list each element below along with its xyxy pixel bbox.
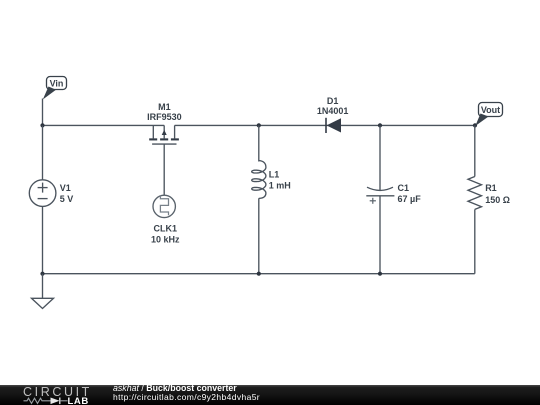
wire C1 top lead — [379, 125, 381, 190]
source stub — [152, 125, 154, 138]
svg-text:1 mH: 1 mH — [269, 180, 291, 190]
bulk arrow lead from rail — [163, 125, 165, 138]
channel bar left — [149, 138, 157, 140]
curved top plate — [367, 187, 393, 190]
ground — [32, 298, 54, 308]
svg-text:IRF9530: IRF9530 — [147, 112, 182, 122]
svg-text:D1: D1 — [327, 96, 339, 106]
svg-text:CLK1: CLK1 — [154, 223, 178, 233]
wire L1 top lead — [258, 125, 260, 161]
straight bottom plate — [366, 195, 394, 197]
capacitor C1 (polarized) — [366, 187, 394, 204]
svg-text:Vout: Vout — [481, 105, 500, 115]
gate plate — [152, 143, 176, 145]
svg-text:67 µF: 67 µF — [398, 194, 422, 204]
net flag Vout — [475, 103, 502, 127]
bulk arrowhead (points up) — [162, 130, 167, 135]
svg-text:C1: C1 — [398, 183, 410, 193]
wire bottom rail — [43, 273, 475, 275]
clock source CLK1 — [153, 195, 175, 217]
wire V1 top lead — [42, 125, 44, 179]
channel bar middle — [160, 138, 168, 140]
wire R1 bottom lead — [474, 209, 476, 273]
svg-text:150 Ω: 150 Ω — [485, 195, 510, 205]
drain stub — [174, 125, 176, 138]
node C1 top junction — [378, 123, 382, 127]
svg-text:Vin: Vin — [50, 79, 64, 89]
transistor M1 (P-MOSFET IRF9530) — [149, 125, 179, 144]
svg-text:V1: V1 — [60, 183, 71, 193]
wire M1 gate to CLK1 — [163, 144, 165, 195]
node L1 top junction — [257, 123, 261, 127]
svg-text:LAB: LAB — [68, 396, 89, 405]
svg-text:R1: R1 — [485, 183, 497, 193]
wire C1 bottom lead — [379, 196, 381, 274]
wire V1 bottom lead — [42, 206, 44, 273]
inductor L1 — [252, 161, 266, 199]
svg-text:L1: L1 — [269, 169, 280, 179]
credit text — [113, 383, 260, 401]
polarity plus sign — [370, 200, 376, 202]
node top-left junction — [40, 123, 44, 127]
footer black bar — [0, 385, 540, 405]
voltage source V1 — [29, 180, 56, 207]
node bottom-left junction — [40, 272, 44, 276]
wire Vin flag to top-left node — [42, 99, 44, 126]
anode triangle pointing left — [327, 118, 342, 132]
cathode bar — [325, 118, 327, 133]
wire R1 top lead — [474, 125, 476, 176]
node Vout junction — [473, 123, 477, 127]
diode D1 (1N4001) — [326, 118, 341, 133]
CircuitLab logo — [0, 385, 110, 405]
node L1 bottom junction — [257, 272, 261, 276]
wire L1 bottom lead — [258, 198, 260, 273]
node C1 bottom junction — [378, 272, 382, 276]
channel bar right — [171, 138, 179, 140]
svg-text:5 V: 5 V — [60, 194, 74, 204]
svg-text:M1: M1 — [158, 102, 171, 112]
wire ground lead — [42, 274, 44, 299]
wire top rail right segment (M1 drain to Vout) — [175, 124, 475, 126]
svg-text:10 kHz: 10 kHz — [151, 234, 180, 244]
net flag Vin — [43, 77, 67, 100]
svg-text:1N4001: 1N4001 — [317, 106, 349, 116]
wire top rail left segment (Vin node to M1 source/bulk) — [43, 124, 165, 126]
resistor R1 zigzag — [468, 177, 482, 210]
